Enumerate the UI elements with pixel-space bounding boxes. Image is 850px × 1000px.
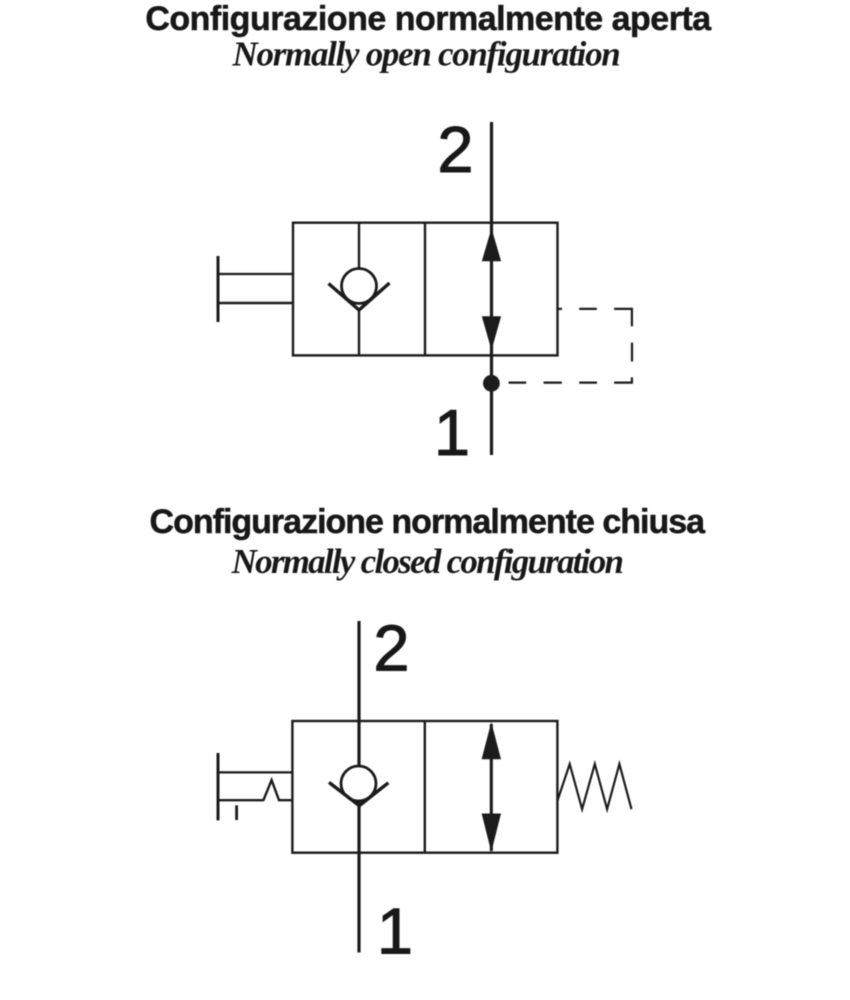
svg-text:Configurazione normalmente chi: Configurazione normalmente chiusa	[150, 503, 707, 541]
svg-text:Normally closed configuration: Normally closed configuration	[231, 542, 623, 581]
svg-text:2: 2	[437, 113, 473, 186]
svg-text:Normally open configuration: Normally open configuration	[232, 35, 620, 74]
svg-text:1: 1	[377, 894, 413, 967]
svg-text:1: 1	[434, 396, 470, 469]
svg-text:2: 2	[373, 612, 409, 685]
svg-text:Configurazione normalmente ape: Configurazione normalmente aperta	[145, 0, 712, 38]
